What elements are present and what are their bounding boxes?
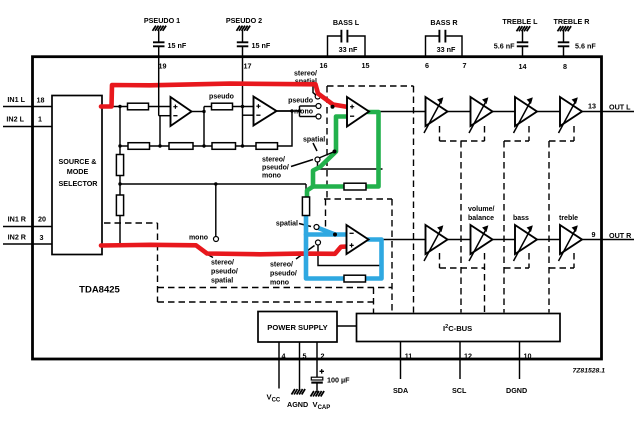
dashed bracket treble R xyxy=(549,253,574,268)
dashed control line bass xyxy=(503,141,505,313)
svg-text:IN1 R: IN1 R xyxy=(8,215,27,224)
resistor R6 xyxy=(256,143,278,150)
svg-text:stereo/: stereo/ xyxy=(294,71,317,78)
wire pin 10 DGND xyxy=(519,342,521,380)
dashed control inner horizontal xyxy=(158,287,393,289)
wire OUT L xyxy=(582,111,635,113)
junction blue arm R xyxy=(333,233,337,237)
leader spatial R xyxy=(299,224,311,227)
leader stereo/pseudo/mono R xyxy=(296,246,315,260)
resistor R10 feedback L xyxy=(344,183,366,190)
wire amp chain R 2-3 xyxy=(492,239,515,241)
svg-text:12: 12 xyxy=(464,352,472,361)
wire IN1 L xyxy=(3,106,52,108)
resistor R8 vertical xyxy=(116,195,123,216)
svg-text:33 nF: 33 nF xyxy=(339,45,358,54)
svg-text:6: 6 xyxy=(425,61,429,70)
block I2C-BUS xyxy=(357,314,561,342)
wire U2 minus input xyxy=(243,114,254,116)
svg-text:9: 9 xyxy=(592,230,596,239)
capacitor C1 15nF xyxy=(153,42,165,46)
svg-text:mono: mono xyxy=(189,235,208,242)
dashed control corner vertical xyxy=(373,288,375,314)
variable amplifier A4 treble L xyxy=(559,97,583,133)
capacitor C7 100uF plus xyxy=(320,369,325,374)
svg-text:MODE: MODE xyxy=(67,167,89,176)
svg-text:18: 18 xyxy=(37,96,45,105)
svg-text:5: 5 xyxy=(303,352,307,361)
junction node A1 xyxy=(118,105,121,108)
junction node A4 xyxy=(290,109,293,112)
capacitor C7 100uF xyxy=(311,377,323,382)
switch contact spatial R xyxy=(314,225,319,230)
svg-text:TREBLE R: TREBLE R xyxy=(554,17,591,26)
svg-text:10: 10 xyxy=(524,352,532,361)
dashed box L function top edge xyxy=(327,85,414,87)
wire green spatial loop L xyxy=(313,112,379,187)
switch contact mono R xyxy=(214,237,219,242)
junction mono bus tap xyxy=(214,182,217,185)
wire treble L upper xyxy=(522,31,524,42)
capacitor C3 33nF bracket xyxy=(328,30,366,57)
switch arm spatial L xyxy=(319,152,335,159)
wire IN1 R xyxy=(3,226,52,228)
svg-text:mono: mono xyxy=(270,280,289,287)
wire stereo contact stub from top xyxy=(313,86,316,95)
op-amp U2 xyxy=(254,97,277,126)
svg-text:POWER SUPPLY: POWER SUPPLY xyxy=(267,323,327,332)
svg-text:15 nF: 15 nF xyxy=(168,41,187,50)
junction red arm L xyxy=(331,105,335,109)
wire U2 output to switch column xyxy=(275,110,300,112)
wire U1 output xyxy=(192,111,205,113)
svg-text:pseudo: pseudo xyxy=(288,98,313,105)
svg-text:TDA8425: TDA8425 xyxy=(79,285,120,296)
variable amplifier A1 volume L xyxy=(424,97,448,133)
switch contact spatial L xyxy=(315,157,320,162)
capacitor C4 33nF bracket xyxy=(426,30,463,57)
svg-text:stereo/: stereo/ xyxy=(270,262,293,269)
wire pseudo1 upper xyxy=(158,31,160,42)
switch contact stereo/pseudo/mono R xyxy=(316,240,321,245)
resistor R3 xyxy=(128,143,150,150)
svg-text:IN1 L: IN1 L xyxy=(7,95,25,104)
wire A2 to R2p xyxy=(204,106,212,108)
wire OUT R xyxy=(582,239,635,241)
wire pin 5 AGND xyxy=(299,342,301,390)
wire feedback row B xyxy=(120,145,128,147)
svg-text:spatial: spatial xyxy=(303,137,325,144)
variable amplifier A6 balance R xyxy=(469,225,493,261)
dashed bracket bass L xyxy=(504,126,529,141)
dashed selector control vertical xyxy=(157,223,159,302)
dashed control line L function to bus xyxy=(413,86,415,313)
junction node B1 xyxy=(158,144,161,147)
dashed box R function left edge stub xyxy=(325,199,327,227)
wire mono bus to R9 xyxy=(305,184,307,197)
svg-text:100 µF: 100 µF xyxy=(327,376,350,385)
svg-text:17: 17 xyxy=(244,62,252,71)
svg-text:balance: balance xyxy=(468,215,494,222)
svg-text:SELECTOR: SELECTOR xyxy=(58,179,98,188)
junction node A2 xyxy=(202,110,205,113)
dashed control line volume L xyxy=(460,141,462,313)
wire R1 to op-amp U1 xyxy=(149,106,171,108)
resistor R7 vertical xyxy=(116,155,123,176)
wire blue switch arm R xyxy=(317,228,335,235)
ground hatch AGND xyxy=(292,389,306,395)
dashed control line R function to bus xyxy=(391,199,393,313)
wire amp chain L 2-3 xyxy=(492,111,515,113)
wire red stereo path L xyxy=(101,84,348,107)
wire U1 minus input from pin19 line xyxy=(160,115,171,117)
switch contact mono L xyxy=(316,114,321,119)
svg-text:pseudo: pseudo xyxy=(209,94,234,101)
block source and mode selector xyxy=(52,96,102,255)
dashed bracket volume L xyxy=(440,126,485,141)
wire row A selector to R1 xyxy=(102,106,128,108)
wire U8 output row R xyxy=(368,239,426,241)
wire switch column vertical xyxy=(299,106,301,117)
ground hatch pseudo1 xyxy=(153,26,167,31)
junction spatial arm L xyxy=(333,150,337,154)
wire R3 to R4 xyxy=(150,145,170,147)
wire between vertical resistors xyxy=(119,176,121,196)
variable amplifier A3 bass L xyxy=(514,97,538,133)
svg-text:15 nF: 15 nF xyxy=(252,41,271,50)
wire pin 2 Vcap xyxy=(316,342,318,377)
dashed control line treble xyxy=(548,141,550,313)
svg-text:2: 2 xyxy=(321,352,325,361)
svg-text:1: 1 xyxy=(38,115,42,124)
svg-text:11: 11 xyxy=(405,352,413,361)
dashed box R function top edge xyxy=(324,198,392,200)
svg-text:13: 13 xyxy=(588,102,596,111)
switch contact stereo/spatial L xyxy=(315,94,320,99)
ground hatch treble L xyxy=(517,26,531,31)
svg-text:OUT L: OUT L xyxy=(609,103,631,112)
dashed control outer horizontal xyxy=(158,301,374,303)
svg-text:16: 16 xyxy=(320,61,328,70)
dashed selector control stub xyxy=(104,222,158,224)
ground hatch pseudo2 xyxy=(237,26,251,31)
wire spatial L to bass feedback xyxy=(318,162,383,169)
svg-text:IN2 L: IN2 L xyxy=(6,115,24,124)
chip outline TDA8425 xyxy=(33,57,602,359)
svg-text:pseudo/: pseudo/ xyxy=(270,271,297,278)
svg-text:SDA: SDA xyxy=(393,386,408,395)
svg-text:spatial: spatial xyxy=(211,278,233,285)
wire amp chain L 3-4 xyxy=(537,111,561,113)
resistor R9 vertical xyxy=(302,197,309,216)
leader stereo/pseudo/spatial xyxy=(204,253,213,258)
wire amp chain R 1-2 xyxy=(447,239,471,241)
svg-text:stereo/: stereo/ xyxy=(211,260,234,267)
junction node B2 xyxy=(202,144,205,147)
svg-text:14: 14 xyxy=(519,62,527,71)
wire R4 to R5 xyxy=(193,145,212,147)
wire pin 11 SDA xyxy=(400,342,402,380)
wire U4 output row L xyxy=(368,111,426,113)
wire treble R lower to pin 8 xyxy=(563,47,565,57)
wire treble R upper xyxy=(563,31,565,42)
svg-text:PSEUDO 1: PSEUDO 1 xyxy=(144,16,180,25)
svg-text:33 nF: 33 nF xyxy=(437,45,456,54)
wire C7 to ground xyxy=(316,384,318,393)
svg-text:8: 8 xyxy=(563,62,567,71)
resistor R5 xyxy=(212,143,236,150)
junction node B3 xyxy=(241,144,244,147)
wire amp chain L 1-2 xyxy=(447,111,471,113)
wire R2 to op-amp U2 xyxy=(233,106,254,108)
svg-text:5.6 nF: 5.6 nF xyxy=(494,42,515,51)
variable amplifier A8 treble R xyxy=(559,225,583,261)
leader spatial L xyxy=(313,143,317,151)
dashed bracket treble L xyxy=(549,126,574,141)
wire stub to mono contact xyxy=(300,116,316,118)
svg-text:volume/: volume/ xyxy=(468,206,495,213)
wire pseudo1 lower to pin 19 xyxy=(158,47,160,57)
svg-text:SCL: SCL xyxy=(452,386,467,395)
wire pin19 vertical xyxy=(159,57,160,146)
svg-text:bass: bass xyxy=(513,215,529,222)
junction mono bus left xyxy=(118,182,121,185)
resistor R11 feedback R xyxy=(344,275,366,282)
capacitor C5 5.6nF xyxy=(517,42,529,46)
resistor R1 xyxy=(128,103,149,110)
variable amplifier A2 balance L xyxy=(469,97,493,133)
wire R switch to bass feedback R xyxy=(318,245,383,266)
wire blue loop R xyxy=(306,216,382,279)
wire R5 to R6 xyxy=(236,145,257,147)
wire IN2 L xyxy=(3,126,52,128)
svg-text:mono: mono xyxy=(294,109,313,116)
op-amp U1 xyxy=(171,97,192,126)
wire power supply to i2c xyxy=(337,325,357,327)
wire stub to pseudo contact xyxy=(300,105,316,107)
svg-text:15: 15 xyxy=(362,61,370,70)
wire blue minus feed R xyxy=(306,232,346,237)
svg-text:treble: treble xyxy=(559,215,578,222)
svg-text:PSEUDO 2: PSEUDO 2 xyxy=(226,16,262,25)
op-amp U4 xyxy=(347,97,369,127)
wire R6 to feedback vertical xyxy=(277,111,293,146)
wire pin 12 SCL xyxy=(459,342,461,380)
junction node A3 xyxy=(241,105,244,108)
svg-text:stereo/: stereo/ xyxy=(262,157,285,164)
svg-text:7: 7 xyxy=(463,61,467,70)
svg-text:I2C-BUS: I2C-BUS xyxy=(443,324,472,333)
wire treble L lower to pin 14 xyxy=(522,47,524,57)
svg-text:TREBLE L: TREBLE L xyxy=(502,17,538,26)
block POWER SUPPLY xyxy=(258,312,337,343)
svg-text:4: 4 xyxy=(282,352,286,361)
wire mono tap down xyxy=(215,184,217,237)
svg-text:DGND: DGND xyxy=(506,386,527,395)
svg-text:BASS L: BASS L xyxy=(333,18,360,27)
wire vertical node A2 xyxy=(203,107,205,147)
junction B0 xyxy=(118,144,121,147)
op-amp U8 xyxy=(347,225,369,254)
wire red stereo path R xyxy=(101,245,347,255)
dashed bracket volume R xyxy=(440,253,485,268)
dashed box L function left edge xyxy=(326,86,328,199)
svg-text:pseudo/: pseudo/ xyxy=(262,165,289,172)
svg-text:5.6 nF: 5.6 nF xyxy=(575,42,596,51)
ground hatch Vcap xyxy=(311,391,325,397)
svg-text:3: 3 xyxy=(40,233,44,242)
wire green stub to R9 xyxy=(307,187,313,197)
wire pin 4 Vcc xyxy=(278,342,280,389)
svg-text:SOURCE &: SOURCE & xyxy=(59,157,97,166)
svg-text:pseudo/: pseudo/ xyxy=(211,269,238,276)
switch contact pseudo L xyxy=(316,104,321,109)
wire IN2 R xyxy=(3,243,52,245)
wire mono bus xyxy=(120,183,306,185)
svg-text:BASS R: BASS R xyxy=(430,18,458,27)
wire pin17 vertical xyxy=(242,57,244,146)
resistor R4 xyxy=(169,143,193,150)
svg-text:7Z81528.1: 7Z81528.1 xyxy=(572,368,605,375)
dashed control line volume R xyxy=(484,253,486,313)
svg-text:spatial: spatial xyxy=(276,221,298,228)
svg-text:OUT R: OUT R xyxy=(609,231,632,240)
svg-text:20: 20 xyxy=(38,215,46,224)
wire amp chain R 3-4 xyxy=(537,239,561,241)
variable amplifier A7 bass R xyxy=(514,225,538,261)
svg-text:19: 19 xyxy=(159,62,167,71)
capacitor C2 15nF xyxy=(237,42,249,46)
svg-text:AGND: AGND xyxy=(287,400,308,409)
variable amplifier A5 volume R xyxy=(424,225,448,261)
wire pseudo2 lower to pin 17 xyxy=(242,47,244,57)
svg-text:IN2 R: IN2 R xyxy=(8,233,27,242)
capacitor C6 5.6nF xyxy=(558,42,570,46)
ground hatch treble R xyxy=(558,26,572,31)
dashed bracket bass R xyxy=(504,253,529,268)
wire pseudo2 upper xyxy=(242,31,244,42)
wire R8 down to R input row xyxy=(119,216,121,246)
junction on U2 output xyxy=(298,109,301,112)
wire input summing vertical xyxy=(119,107,121,155)
leader stereo/pseudo/mono L xyxy=(291,160,313,167)
resistor R2 pseudo xyxy=(212,103,233,110)
svg-text:mono: mono xyxy=(262,173,281,180)
